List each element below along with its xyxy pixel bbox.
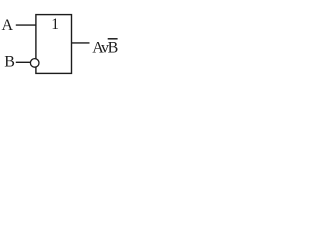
svg-text:B: B — [108, 40, 119, 57]
gate body U1 (OR gate, IEC rectangle) — [36, 15, 72, 74]
overbar over B in output label — [108, 38, 118, 40]
wire A input — [16, 24, 36, 26]
output label A v B-bar — [92, 40, 118, 57]
wire output — [72, 42, 90, 44]
svg-text:A: A — [2, 17, 14, 34]
input label A — [2, 17, 14, 34]
inversion bubble on B input — [30, 59, 39, 68]
input label B — [4, 53, 15, 70]
svg-text:1: 1 — [51, 16, 59, 33]
wire B input — [16, 61, 30, 63]
svg-text:B: B — [4, 53, 15, 70]
gate function label "1" — [51, 16, 59, 33]
